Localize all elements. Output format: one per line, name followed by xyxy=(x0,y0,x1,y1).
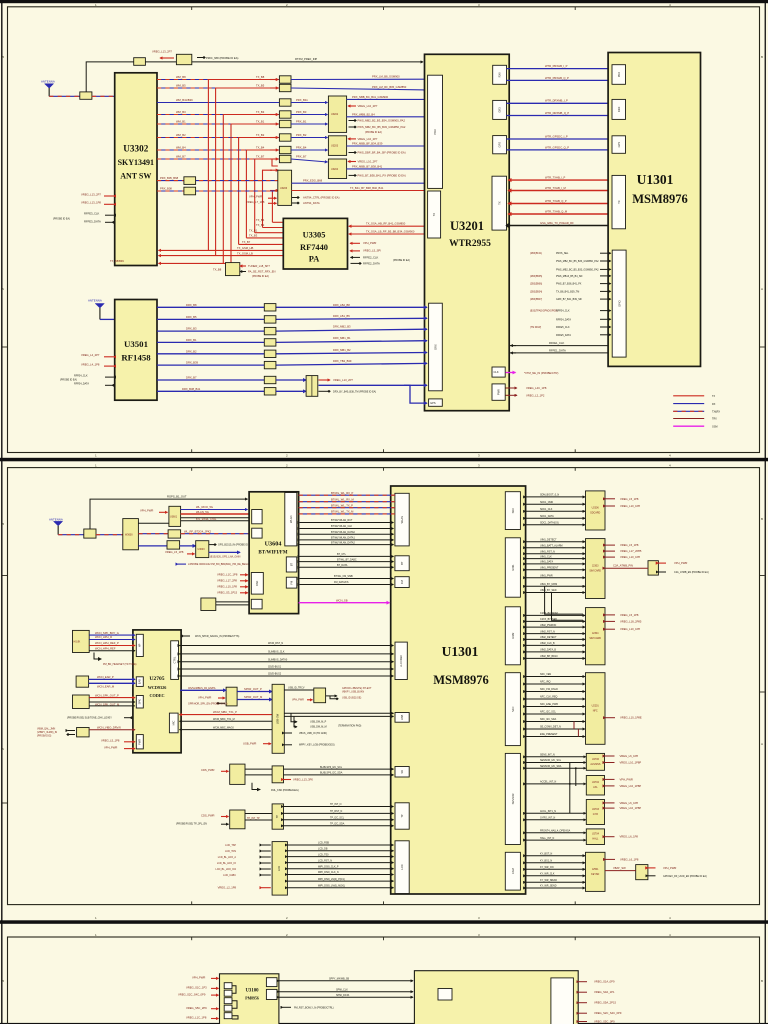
wire BT_EN black pair xyxy=(181,518,250,521)
svg-text:TUNER_L18_SP7: TUNER_L18_SP7 xyxy=(248,264,270,268)
svg-text:GYRO_INT_N: GYRO_INT_N xyxy=(540,817,556,820)
svg-text:BT: BT xyxy=(290,562,294,566)
svg-text:DRX_B38_B41: DRX_B38_B41 xyxy=(182,387,201,391)
svg-text:KY_WR_SB/AD: KY_WR_SB/AD xyxy=(540,879,557,882)
svg-text:PMIC_NBI (PROBE ID EA): PMIC_NBI (PROBE ID EA) xyxy=(206,56,239,60)
svg-text:PRX_WBB_B2_B4: PRX_WBB_B2_B4 xyxy=(352,112,375,116)
svg-text:BT/WL_FM_SSBI: BT/WL_FM_SSBI xyxy=(334,575,353,578)
power VREG_L10_1P8 stub xyxy=(606,627,641,631)
svg-text:WL_RF_BT2G4_JPK2: WL_RF_BT2G4_JPK2 xyxy=(184,529,212,533)
power VREG_L7_1P8 stub U3206 xyxy=(246,200,277,204)
svg-text:(PROBE ID EA): (PROBE ID EA) xyxy=(252,275,269,278)
wire WCN_EAR_M xyxy=(89,683,135,688)
svg-text:UIM1_DETECT: UIM1_DETECT xyxy=(540,538,557,541)
power VREG_S5C_2P9 stub xyxy=(186,1006,219,1010)
wire NFC_I2C_SDA xyxy=(526,718,585,721)
wire KY_WR_SB/AD xyxy=(526,879,585,882)
svg-text:VREG_L4_2P7: VREG_L4_2P7 xyxy=(81,353,100,357)
wire GPIO stub GMX_B7_B41_B39_SIF xyxy=(530,298,611,301)
wire coupler to diplexer xyxy=(96,534,123,536)
svg-text:PRX_B2: PRX_B2 xyxy=(296,133,307,137)
wire WCN_EAR_P xyxy=(89,675,135,679)
svg-text:FML_KSD (PROBE/GEG): FML_KSD (PROBE/GEG) xyxy=(271,789,299,792)
svg-text:BT/WIFI/FM: BT/WIFI/FM xyxy=(258,551,287,556)
wire WM_B1 from U3302 xyxy=(157,119,279,124)
duplexer U3203 xyxy=(328,136,346,156)
wire TP_I2C_SDA xyxy=(284,823,394,826)
svg-text:PA: PA xyxy=(309,255,320,264)
wire GPIO stub PWS_MB2_BC_B5_B33_GSM850_PA2 xyxy=(556,268,611,271)
svg-text:GPIO: GPIO xyxy=(617,300,621,307)
svg-text:TX_B1: TX_B1 xyxy=(249,228,258,232)
node ANT94_CTRL stubs xyxy=(292,195,340,205)
svg-text:MSM8976: MSM8976 xyxy=(433,673,489,687)
svg-text:VREG_L10_1P8P: VREG_L10_1P8P xyxy=(620,784,642,788)
svg-text:(PROB/OSG): (PROB/OSG) xyxy=(37,735,52,738)
node TP_3PL_EN xyxy=(176,822,229,825)
pin TX U3201 xyxy=(492,176,507,230)
svg-text:WM_B41/B39: WM_B41/B39 xyxy=(176,98,193,102)
svg-text:WTR_PRXHB_I_P: WTR_PRXHB_I_P xyxy=(545,64,568,68)
pin column U3100 left xyxy=(224,983,232,1019)
svg-text:SDM_BOOT_0_N: SDM_BOOT_0_N xyxy=(540,494,559,497)
wire BT/WL_WL_RX_P xyxy=(299,491,395,495)
vibrator VIB2701 xyxy=(77,728,90,737)
svg-text:HP: HP xyxy=(138,643,142,647)
svg-text:VREG_L5_1P8: VREG_L5_1P8 xyxy=(620,543,639,547)
SoC U1301 MSM8976 (digital) xyxy=(391,486,526,894)
svg-text:VREG_L1C_1P8: VREG_L1C_1P8 xyxy=(186,1016,207,1020)
wire DRX_MB_B7 out of U3502 xyxy=(319,384,428,386)
SAW filter FL33191 xyxy=(184,187,196,195)
svg-text:VREG_L17_2P85: VREG_L17_2P85 xyxy=(620,549,642,553)
svg-text:I2S/D-BUS1: I2S/D-BUS1 xyxy=(268,666,282,669)
filter U3602 xyxy=(168,530,181,538)
wire UIM2_CLK_B xyxy=(526,642,585,645)
svg-text:PRX_MBB_B7_B38_B41: PRX_MBB_B7_B38_B41 xyxy=(352,164,383,168)
detector U2602 xyxy=(314,688,326,703)
node GPR/HOR_SPK_EN xyxy=(188,702,228,705)
wire BT/WL*WLAN_DATA0 xyxy=(300,531,394,534)
wire GPIO stub RFFE4_DATA xyxy=(556,318,611,321)
SAW filter FL3302 xyxy=(279,84,291,91)
LCD connector J2602 xyxy=(272,842,287,896)
wire PRX_EDG_B68 to U3201 xyxy=(292,179,427,184)
LNA U3603 xyxy=(196,541,209,558)
svg-text:VREG_S3A_1P1: VREG_S3A_1P1 xyxy=(594,990,615,994)
power VREG_L13_3P0 stub U2604 xyxy=(284,777,314,781)
power VREG_L6_1P8 stub xyxy=(605,801,638,805)
SAW filter FL3306 xyxy=(279,134,291,141)
svg-text:ANT SW: ANT SW xyxy=(120,172,151,181)
svg-text:PWS_B7_B38_B41_PX: PWS_B7_B38_B41_PX xyxy=(556,283,582,286)
diversity module U3501 RF1458 xyxy=(115,300,157,401)
power VREG_S5A_2P1 stub xyxy=(579,1001,617,1005)
pin BT U1301 xyxy=(395,556,409,571)
svg-text:U2705: U2705 xyxy=(149,676,164,682)
svg-text:U2704: U2704 xyxy=(592,833,600,836)
svg-text:FRONT4_HALL4_OPEN/SA: FRONT4_HALL4_OPEN/SA xyxy=(540,830,571,833)
wire UIM2_BP_BD10 xyxy=(526,655,585,658)
svg-text:UIM1_RST_N: UIM1_RST_N xyxy=(540,550,555,553)
wire PA out TX_B1 xyxy=(249,228,283,232)
svg-text:U3100: U3100 xyxy=(245,989,259,994)
svg-text:TX_B1: TX_B1 xyxy=(256,119,265,123)
svg-text:DRX_LB1_B5: DRX_LB1_B5 xyxy=(333,314,350,318)
duplexer U3202 xyxy=(328,96,346,132)
svg-text:WTR_GPSDC_Q_P: WTR_GPSDC_Q_P xyxy=(545,145,569,149)
wire TP_RST_N xyxy=(284,810,394,813)
power VREG_L5_SPI stub PA xyxy=(350,249,381,253)
wire UIM jog 1 xyxy=(545,586,583,614)
svg-text:(PROBE/FUSE) TP_3PL_EN: (PROBE/FUSE) TP_3PL_EN xyxy=(176,822,207,825)
node GPIO03 XH-EXT xyxy=(342,687,372,694)
svg-text:WCM_MBC_MAG0: WCM_MBC_MAG0 xyxy=(213,726,234,729)
svg-text:WCN_EAR_M: WCN_EAR_M xyxy=(97,684,115,688)
wire MIPI_DSI0_CLK_N xyxy=(287,871,393,874)
wire NFC_VEN xyxy=(526,673,585,676)
level shifter U2709 xyxy=(230,810,245,829)
wire TX_GSM_LB to U3302 xyxy=(159,251,284,255)
wire RTXM_PREF_INP to U3201 xyxy=(192,57,423,62)
svg-text:TP: TP xyxy=(275,815,279,819)
svg-text:VREG_S5C_0P9: VREG_S5C_0P9 xyxy=(594,1020,615,1024)
svg-text:VPH_PWR: VPH_PWR xyxy=(292,699,304,702)
svg-text:RGPS_B1_OUT: RGPS_B1_OUT xyxy=(167,495,187,499)
wire SDC1_DATA(0/3) xyxy=(526,522,585,525)
svg-text:TX_B3: TX_B3 xyxy=(249,234,258,238)
node PWS_MB2_BC_B5_B33_GSM850_PA2 xyxy=(349,125,406,129)
power VREG_L10_1P8 stub xyxy=(606,504,641,508)
antenna ANT1 xyxy=(41,80,55,97)
pin PAD U3604 xyxy=(251,573,263,595)
power amp U3305 RF7440 xyxy=(283,218,347,269)
svg-text:TX: TX xyxy=(432,213,436,217)
wire sensor I2C vertical 2 xyxy=(575,768,577,786)
svg-text:TX_GSA_LB_RF_B5_B8_B34_GSM900: TX_GSA_LB_RF_B5_B8_B34_GSM900 xyxy=(366,230,415,234)
svg-text:VREG_L4_1P8: VREG_L4_1P8 xyxy=(81,362,100,366)
wire WL_BT_5G blue xyxy=(181,505,248,509)
svg-text:LCD: LCD xyxy=(277,866,281,871)
svg-text:A-CODEC: A-CODEC xyxy=(399,655,403,667)
node PM_RST_BONLY_N xyxy=(283,1006,334,1009)
svg-text:BL/BLSP6_I2C_SDA: BL/BLSP6_I2C_SDA xyxy=(320,772,343,775)
wire pin jogs U3100 xyxy=(232,986,238,1019)
wire GYRO_INT_N xyxy=(526,817,586,820)
node GPIO/EX_RF_UUID_EN xyxy=(648,875,707,878)
svg-text:DRX_B3: DRX_B3 xyxy=(186,327,197,331)
svg-text:WTR_TXHB_Q_P: WTR_TXHB_Q_P xyxy=(545,199,567,203)
svg-text:PM8956: PM8956 xyxy=(245,997,259,1001)
svg-text:U3305: U3305 xyxy=(303,231,326,240)
pin SDC U1301 xyxy=(505,492,520,530)
svg-text:RF7440: RF7440 xyxy=(300,243,328,252)
wire WTR_GPSDC_Q_P xyxy=(507,145,611,150)
svg-text:WLAN: WLAN xyxy=(289,515,293,523)
svg-text:RFFE4_CLK: RFFE4_CLK xyxy=(556,310,570,313)
sensor U2703 GYRO xyxy=(586,800,604,825)
svg-text:GMX_B7_B41_B39_SIF: GMX_B7_B41_B39_SIF xyxy=(556,298,582,301)
svg-text:SPK: SPK xyxy=(138,699,142,704)
svg-text:PRX_B7: PRX_B7 xyxy=(296,154,307,158)
svg-text:WCN_SPK_BDY_G: WCN_SPK_BDY_G xyxy=(95,631,119,635)
svg-text:CTRL: CTRL xyxy=(173,656,177,663)
wire USB_DM_M_P xyxy=(284,713,393,723)
wire antenna feed to U3302 xyxy=(92,95,115,97)
svg-text:USB: USB xyxy=(400,714,404,720)
svg-text:ESE_PRESENT: ESE_PRESENT xyxy=(540,733,558,736)
wire NFC tee xyxy=(574,722,578,737)
svg-text:RX0: RX0 xyxy=(498,72,502,78)
pin PRX U3201 xyxy=(428,75,443,188)
svg-text:VPH_PWR: VPH_PWR xyxy=(192,976,205,980)
node PM_BN_BB4 note xyxy=(178,563,255,566)
pin TX U1301 xyxy=(612,175,626,228)
power VREG_L13_2P7 stub U3502 xyxy=(319,378,354,382)
svg-text:U2706: U2706 xyxy=(592,758,600,761)
svg-text:VREG_L13_3P0: VREG_L13_3P0 xyxy=(293,777,313,781)
svg-text:LCD_TE0: LCD_TE0 xyxy=(318,853,329,856)
svg-text:RFFE5_CLK: RFFE5_CLK xyxy=(556,326,570,329)
svg-text:TX_B8: TX_B8 xyxy=(256,75,265,79)
svg-text:DRX: DRX xyxy=(434,344,438,350)
wire FM_DATA/FS xyxy=(300,581,394,584)
wire crystal pair to U3604 xyxy=(216,602,249,605)
svg-text:TX: TX xyxy=(617,200,621,204)
power VREG_L4C_1P8 stub xyxy=(506,386,547,390)
svg-text:(PROBE ID EA): (PROBE ID EA) xyxy=(393,259,410,262)
svg-text:(2B3)5F41): (2B3)5F41) xyxy=(530,252,542,255)
svg-text:WM_B3: WM_B3 xyxy=(176,110,186,114)
pin SPMI2 U3100 xyxy=(266,989,277,999)
wire BT/WL_WL_TX_M xyxy=(299,510,395,514)
wire WTR_PRXHB_I_P xyxy=(507,64,611,69)
svg-text:VREG_L6_1P8: VREG_L6_1P8 xyxy=(620,754,639,758)
SAW filter FL3531 xyxy=(264,327,276,334)
svg-text:TP_INT_TP: TP_INT_TP xyxy=(247,817,260,820)
power VREG_L18_2P85 stub xyxy=(606,619,642,623)
svg-text:TX_B2: TX_B2 xyxy=(256,133,265,137)
wire DRX_B5 U3501 to DRX xyxy=(157,314,427,320)
power VPH_PWR stub C2303 xyxy=(658,561,687,565)
svg-text:WCM_MBC_TX1_M: WCM_MBC_TX1_M xyxy=(213,718,235,721)
svg-text:GPS: GPS xyxy=(617,142,621,148)
svg-text:(PROBE ID EA): (PROBE ID EA) xyxy=(60,379,77,382)
svg-text:PRX_LM_RF_B05_GSM850: PRX_LM_RF_B05_GSM850 xyxy=(372,85,407,89)
wire TX_GSM_HB to U3302 xyxy=(159,246,284,250)
svg-text:VBUS_USB_IN (TD GND): VBUS_USB_IN (TD GND) xyxy=(299,732,327,735)
wire PA out TX_HB xyxy=(256,218,283,222)
svg-text:ANTENNA: ANTENNA xyxy=(88,299,102,303)
svg-text:GR3: GR3 xyxy=(498,107,502,113)
wire UIM2_DATA_B xyxy=(526,649,585,652)
node VBUS_USB_IN xyxy=(284,732,327,735)
SAW filter FL3305 xyxy=(279,120,291,127)
svg-text:FM: FM xyxy=(290,581,294,585)
svg-text:NFC_ESE_PWR: NFC_ESE_PWR xyxy=(540,703,558,706)
wire BT/WL_BT_DABC xyxy=(300,558,394,561)
svg-text:SPMI_DATA: SPMI_DATA xyxy=(336,994,350,997)
svg-text:UIM2_CLK_B: UIM2_CLK_B xyxy=(540,642,555,645)
pin PWR U3201 xyxy=(492,384,505,400)
wire SDM_BOOT_0_N xyxy=(526,494,585,497)
svg-text:UIM1_BY_SED: UIM1_BY_SED xyxy=(540,589,557,592)
sensor U2704 HALL xyxy=(586,829,604,845)
wire RFFE4_CLK stub U3501 xyxy=(74,374,114,377)
power VREG_L1C_1P8 stub U3604 xyxy=(217,572,248,576)
wire WTR_PRXHB_Q_P xyxy=(507,76,611,81)
svg-text:VPH_PWR: VPH_PWR xyxy=(198,695,211,699)
svg-text:DRX_MB2_B3: DRX_MB2_B3 xyxy=(333,325,351,329)
power VREG_L10_1P8P stub xyxy=(605,761,641,765)
svg-text:ANTENNA: ANTENNA xyxy=(49,517,63,521)
pin BD U3604 xyxy=(251,599,262,609)
pin RX0 U3201 xyxy=(493,65,507,84)
wire SPMI_DATA xyxy=(279,994,413,997)
svg-text:VREG_L5_SPI: VREG_L5_SPI xyxy=(363,249,381,253)
wire WCN_SPK_OUT_M xyxy=(89,702,135,707)
transceiver U3201 WTR2955 xyxy=(425,54,510,410)
duplexer U3204 xyxy=(328,159,346,179)
wire PRX_MBB_B7_B38_B41 xyxy=(347,164,427,169)
wire ACCL_INT1_N xyxy=(526,810,586,813)
SAW filter FL3308 xyxy=(279,155,291,162)
svg-text:LCD_BL_LDO_IO2: LCD_BL_LDO_IO2 xyxy=(216,868,237,871)
svg-text:UIM2_PWRON: UIM2_PWRON xyxy=(540,624,556,627)
svg-text:SDC1_CMD: SDC1_CMD xyxy=(540,501,553,504)
wire BLSP6_I2C_SCL xyxy=(284,766,394,769)
svg-text:PRX_LM_B8_GSM900: PRX_LM_B8_GSM900 xyxy=(372,75,400,79)
svg-text:SENS_INT_N: SENS_INT_N xyxy=(540,754,555,757)
wire to duplexer U3202 xyxy=(291,114,328,116)
svg-text:VBAT_SW: VBAT_SW xyxy=(613,866,626,870)
legend TRX line xyxy=(673,418,717,421)
legend RX line xyxy=(673,403,716,406)
pin GPS U3201 xyxy=(493,136,507,154)
svg-text:SPPY_MX/MB_SB: SPPY_MX/MB_SB xyxy=(329,977,349,980)
wire SENSOR_I2C_SDA xyxy=(526,765,586,768)
pin WLAN U3604 xyxy=(285,493,297,546)
power VPH_PWR stub PA xyxy=(350,241,376,245)
svg-text:TX_B3: TX_B3 xyxy=(256,110,265,114)
svg-text:MSM8976: MSM8976 xyxy=(632,192,688,206)
svg-text:WM_B2: WM_B2 xyxy=(176,133,186,137)
power VPH_PWR stub U3100 xyxy=(192,976,219,980)
svg-text:I2S/SLIMBUS_PA_EN/PA: I2S/SLIMBUS_PA_EN/PA xyxy=(188,687,216,690)
wire coupler sense up/right xyxy=(86,62,134,92)
wire antenna2 to U3501 xyxy=(100,318,115,320)
svg-text:WLAN: WLAN xyxy=(400,516,404,524)
svg-text:DRX_B2: DRX_B2 xyxy=(186,349,197,353)
svg-text:TX_GSA_HB_RF_B41_GSM850: TX_GSA_HB_RF_B41_GSM850 xyxy=(366,222,406,226)
wire PA out TX_B7 xyxy=(239,240,284,244)
svg-text:SDC1_DATA(0/3): SDC1_DATA(0/3) xyxy=(540,522,559,525)
wire FRONT4_HALL4_OPEN/SA xyxy=(526,830,586,833)
svg-text:U3202: U3202 xyxy=(331,113,339,116)
pin GPIO U1301 xyxy=(612,250,626,357)
wire UIM1_CLK xyxy=(526,555,585,558)
wire SE_COMX_DET_N xyxy=(526,726,585,729)
power VREG_S5C stub xyxy=(579,1020,615,1024)
wire XTM_NE_IN magenta xyxy=(506,371,559,375)
svg-text:KY_WR_CLK: KY_WR_CLK xyxy=(540,873,555,876)
svg-text:UIM1_PRESENT: UIM1_PRESENT xyxy=(540,567,559,570)
node LCD_TDS xyxy=(225,850,271,853)
svg-text:(PROBE/FUSE) SLB/TONE_CHK_LE: (PROBE/FUSE) SLB/TONE_CHK_LEVEY xyxy=(67,716,112,719)
antenna switch U3302 SKY13491 xyxy=(115,73,157,266)
wire SENS_INT_N xyxy=(526,754,586,757)
wire NFC_CLK_REQ xyxy=(526,696,585,699)
svg-text:SPMI_CLK: SPMI_CLK xyxy=(336,988,348,991)
svg-text:TP_I2C_SCL: TP_I2C_SCL xyxy=(330,816,345,819)
svg-text:VREG_L5_1P8: VREG_L5_1P8 xyxy=(620,613,639,617)
wire red loop U3206 xyxy=(272,159,278,166)
wire WCN_SPK_SENSE xyxy=(89,705,135,707)
svg-text:B: B xyxy=(761,979,763,983)
svg-text:EAR: EAR xyxy=(138,679,142,684)
junction USB branch xyxy=(291,713,361,727)
svg-text:DRX_TB2_B39: DRX_TB2_B39 xyxy=(333,359,352,363)
power CDS_PWR stub U2707 xyxy=(201,768,229,772)
svg-text:TP: TP xyxy=(400,814,404,818)
svg-text:VREG_L6_1P8: VREG_L6_1P8 xyxy=(620,857,639,861)
svg-text:GPIO03 +5B/GTE) XH-EXT: GPIO03 +5B/GTE) XH-EXT xyxy=(342,687,372,690)
node GPS_B1515_IN xyxy=(209,544,253,547)
wire to duplexer U3202 xyxy=(291,123,328,125)
svg-text:J2304: J2304 xyxy=(592,632,599,635)
svg-text:B: B xyxy=(761,55,763,59)
wire SPMI_CLK xyxy=(279,988,413,991)
svg-text:(2B3)5B66): (2B3)5B66) xyxy=(530,283,542,286)
svg-text:WM_B5: WM_B5 xyxy=(176,83,186,87)
power VREG_S2C_1P3 stub xyxy=(186,986,219,990)
pin SD U1301 xyxy=(395,767,409,778)
wire NFC_FW_DNLD xyxy=(526,688,585,691)
svg-text:WCD9326: WCD9326 xyxy=(148,685,167,690)
svg-text:WL_RFIO_5G: WL_RFIO_5G xyxy=(196,505,213,509)
wire GPIO stub TX_B8_B41_B39_TM xyxy=(530,290,611,293)
svg-text:UIM2_DETECT: UIM2_DETECT xyxy=(540,636,557,639)
svg-text:LCD_RSB: LCD_RSB xyxy=(318,842,329,845)
svg-text:KEYSD: KEYSD xyxy=(591,873,599,876)
svg-text:DRX_B7: DRX_B7 xyxy=(186,376,197,380)
svg-text:PWS_MB2_BC_B5_B33_GSM850_PA2: PWS_MB2_BC_B5_B33_GSM850_PA2 xyxy=(556,268,599,271)
wire WCM_MIC_TX_M xyxy=(180,718,273,721)
wire WTR_DRXMB_Q_P xyxy=(507,111,611,116)
svg-text:VREG_L7_1P8: VREG_L7_1P8 xyxy=(246,200,265,204)
svg-text:FM: FM xyxy=(400,580,404,584)
power VREG_S2C_S4C stub xyxy=(579,1011,622,1015)
svg-text:DRX_LB2_B8: DRX_LB2_B8 xyxy=(333,303,350,307)
wire BT_DATA xyxy=(300,564,394,567)
node LCD_TSP xyxy=(225,844,271,847)
SAW filter FL33180 xyxy=(184,177,196,185)
svg-text:U3203: U3203 xyxy=(331,145,339,148)
node PWS_B7_B38_B41_PX xyxy=(349,173,406,177)
svg-text:UIM1: UIM1 xyxy=(511,564,515,571)
wire I2S to amp xyxy=(180,687,226,690)
svg-text:PAD: PAD xyxy=(255,581,259,586)
svg-text:USB-SW: USB-SW xyxy=(276,713,280,724)
svg-text:SKY13491: SKY13491 xyxy=(118,158,154,167)
power VREG_L4_2P7 stub U3501 xyxy=(81,353,114,357)
svg-text:VREG_L13_2P7: VREG_L13_2P7 xyxy=(81,192,101,196)
pin SE U3604 xyxy=(252,510,262,524)
svg-text:PRX_MBB_BF_B34_B39: PRX_MBB_BF_B34_B39 xyxy=(352,142,383,146)
pin SPMI1 U3100 xyxy=(266,978,277,987)
power CDS_PWR stub U2709 xyxy=(201,813,229,817)
wire WTR_TXHB_I_M xyxy=(508,186,612,191)
